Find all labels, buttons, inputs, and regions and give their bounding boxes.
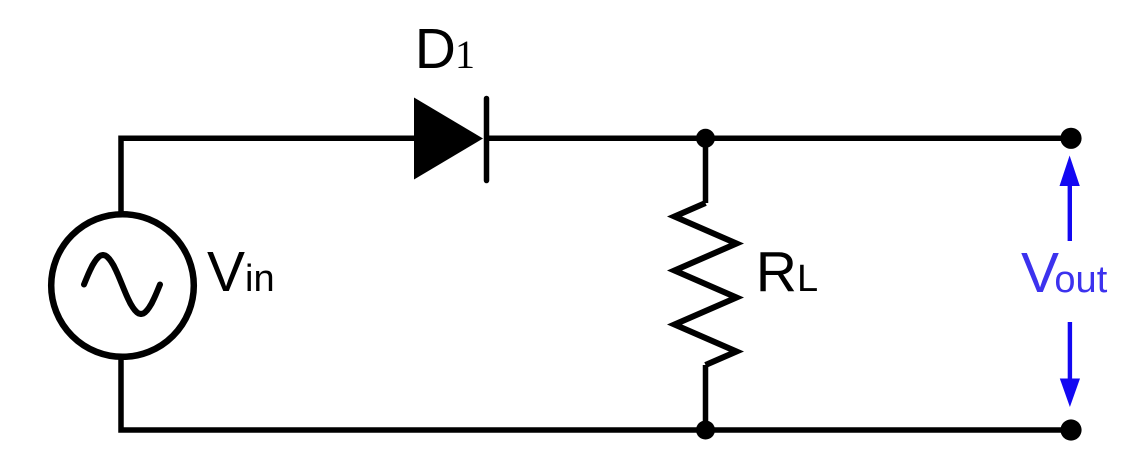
source V1 (AC voltage source circle) [51, 214, 194, 357]
sine wave symbol inside source [84, 255, 160, 314]
junction dot bottom (node at RL bottom) [696, 421, 715, 440]
diode D1 cathode bar [484, 99, 490, 181]
wire: source top lead and top rail to diode anode [121, 138, 414, 214]
Vout down arrow head [1060, 379, 1080, 408]
diode D1 triangle (anode) [414, 98, 483, 180]
Vout down arrow shaft [1068, 322, 1072, 380]
Vout up arrow head [1060, 156, 1080, 187]
wire: bottom rail from source to output [121, 357, 1071, 430]
wire: diode cathode to output top rail [486, 136, 1071, 142]
Vout up arrow shaft [1068, 185, 1072, 242]
output terminal dot top right [1060, 128, 1081, 149]
resistor RL top lead [703, 138, 709, 203]
output terminal dot bottom right [1060, 419, 1081, 440]
junction dot top (node at RL top) [696, 129, 715, 148]
resistor RL zigzag body [675, 203, 737, 365]
resistor RL bottom lead [703, 365, 709, 430]
